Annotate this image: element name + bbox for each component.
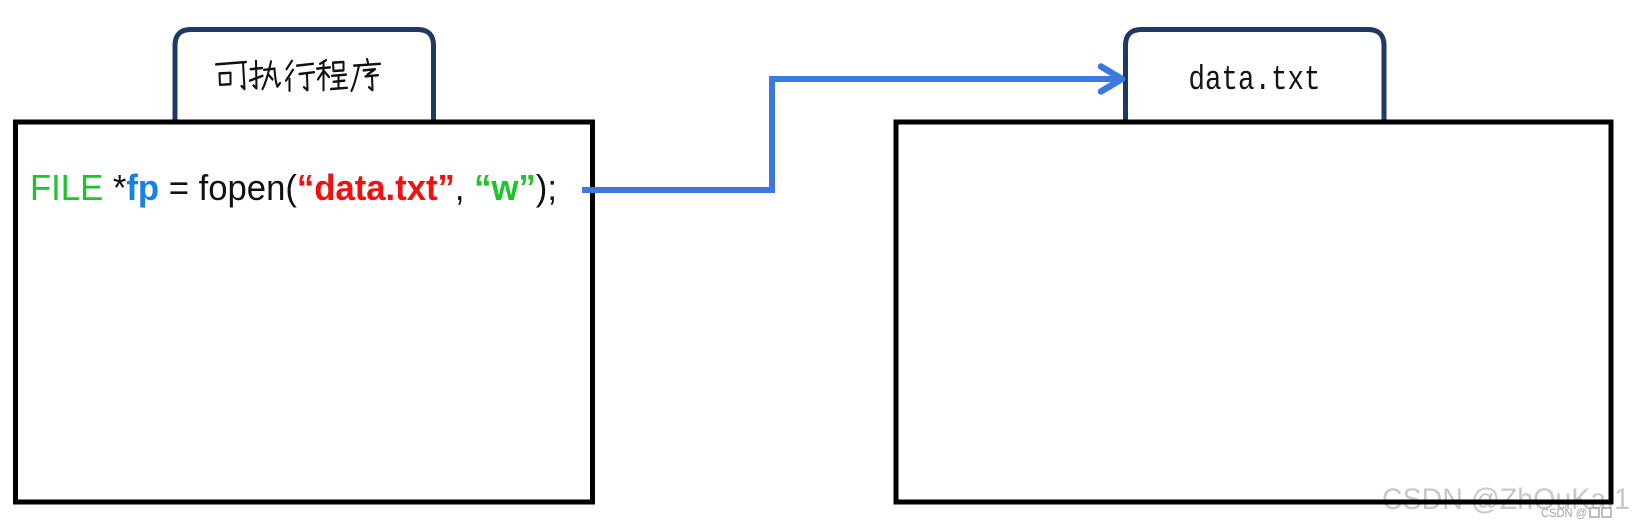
tab 可执行程序 (left tab) [175,30,434,123]
svg-text:data.txt: data.txt [1189,62,1321,100]
char 序 [352,59,381,91]
svg-text:FILE *fp = fopen(“data.txt”, “: FILE *fp = fopen(“data.txt”, “w”); [30,167,557,208]
tab label 可执行程序 drawn strokes [216,59,380,91]
svg-text:CSDN @: CSDN @ [1541,506,1587,520]
char 行 [286,61,314,91]
char 执 [250,61,280,89]
wire arrow from fopen to data.txt tab [582,79,1116,190]
tab data.txt (right tab) [1126,30,1385,123]
char 可 [216,62,246,89]
char 程 [317,60,347,90]
watermark small CSDN @initials [1541,506,1611,520]
left box (executable program) [16,122,593,502]
right box (data.txt file) [896,122,1611,502]
arrowhead chevron [1101,67,1122,92]
